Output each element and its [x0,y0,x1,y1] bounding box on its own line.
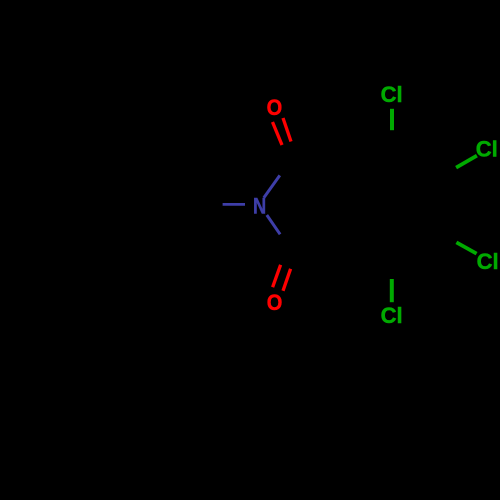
svg-text:O: O [267,290,283,315]
svg-text:O: O [267,95,283,120]
svg-text:N: N [253,194,266,219]
svg-text:Cl: Cl [477,249,499,274]
svg-text:Cl: Cl [381,82,403,107]
svg-text:Cl: Cl [381,303,403,328]
svg-text:Cl: Cl [476,136,498,161]
